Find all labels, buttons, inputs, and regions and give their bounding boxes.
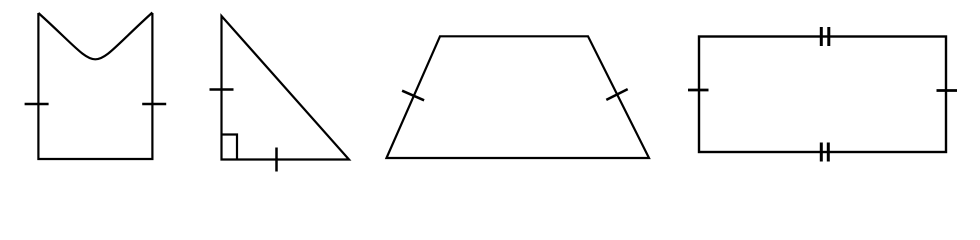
shape 2: right triangle [222, 16, 350, 160]
shape 3 right slant tick [606, 89, 627, 100]
shape 2 right-angle marker [222, 135, 238, 160]
shape 4 right side tick [937, 89, 958, 92]
shape 1 right side tick [142, 103, 166, 106]
shape 4 bottom double tick 1 [820, 143, 823, 162]
shape 1 curved top edge [38, 13, 152, 60]
shape 4: rectangle [699, 37, 946, 153]
shape 1 left side tick [25, 103, 49, 106]
shape 3 left slant tick [402, 91, 424, 101]
shape 4 left side tick [688, 89, 709, 92]
shape 4 bottom double tick 2 [827, 143, 830, 162]
shape 2 left side tick [210, 88, 234, 91]
shape 4 top double tick 2 [827, 27, 830, 46]
shape 3: trapezoid [387, 36, 650, 158]
shape 1: square with concave curved top [38, 13, 152, 159]
shape 4 top double tick 1 [820, 27, 823, 46]
shape 2 bottom side tick [275, 148, 278, 172]
